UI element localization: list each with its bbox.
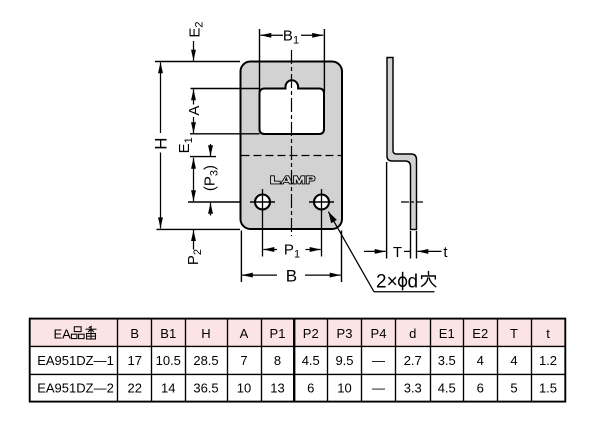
svg-text:3.5: 3.5 xyxy=(438,353,456,368)
svg-text:28.5: 28.5 xyxy=(193,353,218,368)
svg-text:P3: P3 xyxy=(337,326,353,341)
svg-text:EA951DZ—1: EA951DZ—1 xyxy=(37,353,114,368)
svg-text:P2: P2 xyxy=(303,326,319,341)
svg-text:4: 4 xyxy=(477,353,484,368)
svg-text:B1: B1 xyxy=(160,326,176,341)
svg-text:3.3: 3.3 xyxy=(404,380,422,395)
svg-text:10: 10 xyxy=(337,380,351,395)
svg-text:9.5: 9.5 xyxy=(335,353,353,368)
svg-text:P1: P1 xyxy=(284,242,300,261)
svg-text:d: d xyxy=(408,271,419,292)
svg-text:E2: E2 xyxy=(472,326,488,341)
svg-text:T: T xyxy=(510,326,518,341)
svg-text:1.2: 1.2 xyxy=(539,353,557,368)
svg-text:T: T xyxy=(393,244,402,261)
svg-text:P4: P4 xyxy=(371,326,387,341)
svg-text:P1: P1 xyxy=(270,326,286,341)
svg-text:13: 13 xyxy=(270,380,284,395)
svg-text:P2: P2 xyxy=(185,249,204,265)
svg-text:8: 8 xyxy=(274,353,281,368)
svg-text:B: B xyxy=(130,326,139,341)
svg-text:2×: 2× xyxy=(376,271,398,292)
svg-text:36.5: 36.5 xyxy=(193,380,218,395)
svg-text:10: 10 xyxy=(237,380,251,395)
svg-text:H: H xyxy=(152,137,171,149)
svg-text:7: 7 xyxy=(240,353,247,368)
svg-text:d: d xyxy=(409,326,416,341)
svg-text:14: 14 xyxy=(161,380,175,395)
svg-text:6: 6 xyxy=(477,380,484,395)
svg-text:EA: EA xyxy=(54,327,72,342)
svg-text:B: B xyxy=(286,266,297,285)
svg-text:A: A xyxy=(186,106,203,116)
svg-text:(P3): (P3) xyxy=(201,165,220,191)
svg-text:6: 6 xyxy=(307,380,314,395)
svg-text:A: A xyxy=(240,326,249,341)
svg-text:4.5: 4.5 xyxy=(302,353,320,368)
svg-text:—: — xyxy=(372,380,385,395)
svg-text:EA951DZ—2: EA951DZ—2 xyxy=(37,380,114,395)
svg-text:1.5: 1.5 xyxy=(539,380,557,395)
svg-text:t: t xyxy=(443,244,448,261)
svg-text:H: H xyxy=(201,326,210,341)
svg-text:4: 4 xyxy=(510,353,517,368)
svg-text:5: 5 xyxy=(510,380,517,395)
svg-text:E1: E1 xyxy=(439,326,455,341)
svg-text:17: 17 xyxy=(128,353,142,368)
svg-text:22: 22 xyxy=(128,380,142,395)
svg-text:2.7: 2.7 xyxy=(404,353,422,368)
svg-text:10.5: 10.5 xyxy=(156,353,181,368)
svg-text:t: t xyxy=(546,326,550,341)
svg-text:—: — xyxy=(372,353,385,368)
svg-text:4.5: 4.5 xyxy=(438,380,456,395)
svg-text:B1: B1 xyxy=(283,28,299,47)
svg-text:E2: E2 xyxy=(186,21,205,37)
svg-text:E1: E1 xyxy=(176,137,195,153)
